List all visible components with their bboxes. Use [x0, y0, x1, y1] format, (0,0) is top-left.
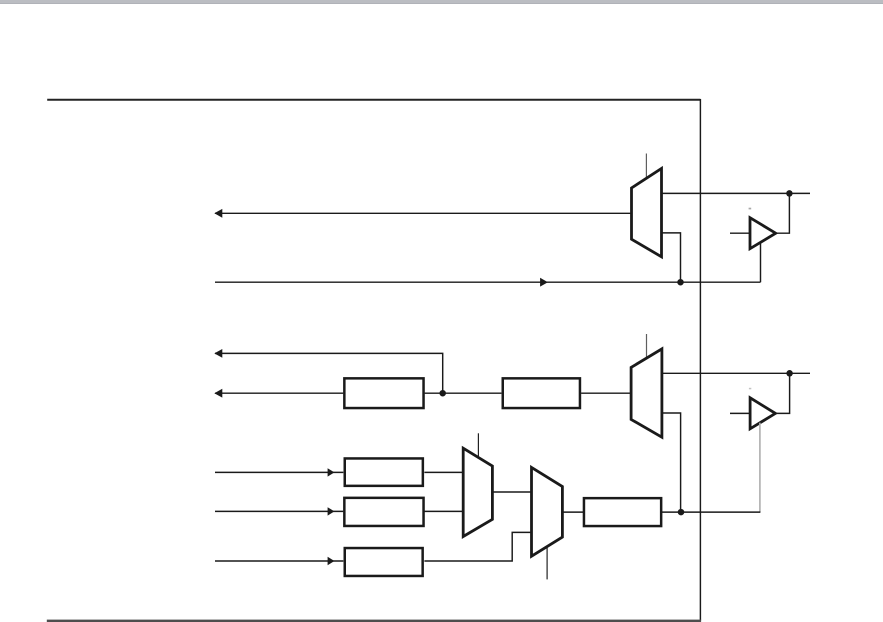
- wire: MUX4 output to REG6: [562, 511, 584, 513]
- wire: REG4 to MUX3: [424, 510, 463, 512]
- arrowhead left on upper branch: [214, 349, 222, 358]
- register REG6: [584, 498, 661, 526]
- module boundary right edge: [699, 99, 701, 621]
- select stub MUX2: [646, 334, 648, 357]
- wire: BUF1 output up to junction: [776, 193, 790, 233]
- wire: REG5 output up to MUX4: [424, 532, 531, 561]
- wire: BUF1 enable down to input bus: [760, 243, 762, 283]
- select stub MUX3: [477, 433, 479, 458]
- select stub MUX4: [546, 547, 548, 579]
- node: junction dot on MUX1 output: [786, 190, 793, 197]
- top header bar: [0, 0, 883, 4]
- buffer BUF1: [750, 218, 776, 249]
- register REG5: [345, 548, 423, 576]
- node: junction dot on MUX2 output: [786, 370, 793, 377]
- wire: BUF2 output up to junction: [775, 373, 789, 413]
- node: junction dot on input bus: [677, 279, 684, 286]
- wire: input bus (y=282): [215, 281, 761, 283]
- wire: REG1 to REG2: [425, 392, 502, 394]
- wire: MUX1 lower pin to bottom bus: [662, 233, 681, 282]
- select stub MUX1: [645, 154, 647, 179]
- wire: MUX3 output to MUX4: [492, 491, 531, 493]
- module boundary bottom edge: [47, 620, 701, 622]
- wire: BUF2 input stub: [730, 412, 750, 414]
- mux MUX3: [463, 448, 492, 536]
- node: junction dot on REG6 output: [678, 509, 685, 516]
- buffer BUF2: [750, 398, 775, 429]
- wire: MUX1 output to pad (y=193): [662, 192, 811, 194]
- wire: MUX2 output to pad (y=373): [662, 372, 810, 374]
- register REG2: [503, 378, 580, 408]
- arrowhead right on input bus: [540, 278, 548, 287]
- register REG1: [344, 378, 423, 408]
- wire: REG1 output to left (y=393): [215, 392, 343, 394]
- wire: input to REG3 (y=472): [215, 471, 343, 473]
- mux MUX2: [631, 349, 662, 437]
- wire: REG3 to MUX3: [424, 471, 463, 473]
- wire: REG2 to MUX2: [581, 392, 631, 394]
- faint erased-label dash above BUF1: [749, 208, 752, 210]
- wire: input to REG5 (y=561): [215, 560, 343, 562]
- mux MUX1: [632, 169, 662, 257]
- wire: upper left branch (y=353) to junction: [215, 353, 443, 393]
- register REG3: [345, 458, 423, 485]
- arrowhead left on REG1 output wire: [214, 389, 222, 398]
- wire: input to MUX1 (y=213): [215, 212, 632, 214]
- faint erased-label dash above BUF2: [749, 388, 751, 390]
- wire: input to REG4 (y=510): [215, 510, 343, 512]
- arrowhead right into REG5: [328, 557, 335, 565]
- register REG4: [344, 498, 423, 526]
- arrowhead right into REG3: [328, 468, 335, 476]
- wire: BUF1 input stub: [730, 232, 750, 234]
- mux MUX4: [532, 467, 563, 556]
- arrowhead right into REG4: [328, 507, 335, 515]
- wire: REG6 output to right (y=512): [661, 511, 760, 513]
- wire: MUX2 lower pin down to REG6 output node: [662, 413, 681, 512]
- node: junction dot between REG1 and REG2: [439, 390, 446, 397]
- wire: BUF2 enable down to REG6 output wire (gray): [759, 423, 761, 512]
- module boundary top edge: [47, 99, 700, 101]
- arrowhead left on MUX1 input wire: [214, 209, 222, 218]
